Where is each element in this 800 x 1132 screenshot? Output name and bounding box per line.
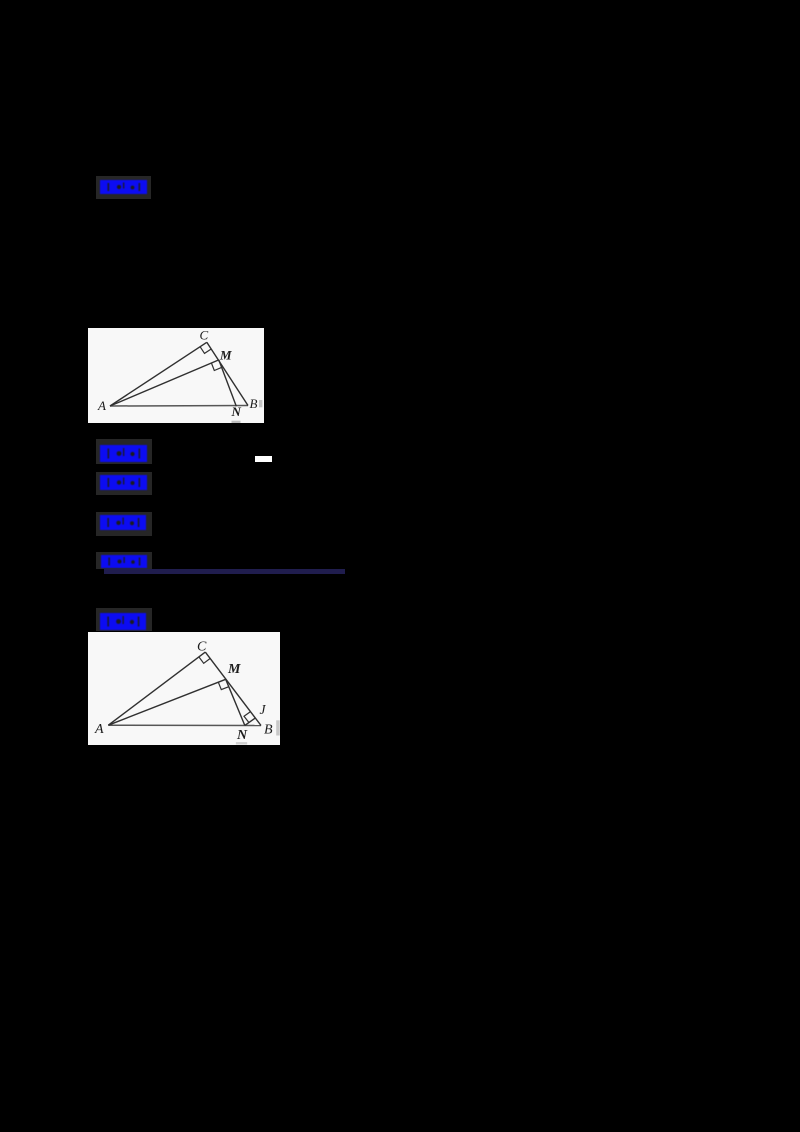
cursor artifact right of B — [276, 720, 280, 735]
white dash (math fragment) — [255, 456, 272, 462]
svg-text:C: C — [197, 640, 207, 655]
wire: segment AM — [110, 360, 219, 406]
right angle at M — [218, 682, 229, 689]
figure box 2 — [88, 632, 280, 745]
label tag 4 — [96, 512, 152, 536]
svg-text:A: A — [97, 398, 106, 413]
svg-text:N: N — [236, 728, 248, 743]
artifact below N — [232, 421, 241, 423]
right angle at C — [199, 657, 210, 663]
right angle at M — [211, 363, 221, 371]
svg-text:J: J — [260, 702, 267, 717]
wire: side AB — [110, 405, 248, 408]
wire: segment MN — [226, 679, 245, 725]
wire: segment MN — [219, 360, 237, 406]
wire: side CB through M — [207, 342, 248, 405]
navy underline — [104, 569, 345, 574]
wire: side AC — [108, 652, 205, 725]
wire: side AB — [108, 724, 261, 726]
right angle at C — [200, 347, 211, 354]
label tag 6 — [96, 608, 152, 631]
svg-text:N: N — [231, 404, 242, 419]
label tag 2 — [96, 439, 152, 464]
wire: segment AM — [108, 679, 225, 725]
wire: side CB through M — [205, 652, 261, 725]
label tag 5 — [96, 552, 152, 569]
figure box 1 — [88, 328, 264, 423]
svg-text:B: B — [264, 723, 273, 738]
svg-text:C: C — [200, 328, 209, 343]
label tag 3 — [96, 472, 152, 495]
label tag 1 (example heading) — [96, 176, 151, 199]
svg-text:A: A — [94, 722, 104, 737]
svg-text:M: M — [227, 662, 241, 677]
cursor artifact right of B — [259, 400, 262, 407]
svg-text:B: B — [250, 396, 258, 411]
wire: segment NJ — [245, 718, 256, 726]
right angle at J — [244, 712, 251, 723]
wire: side AC — [110, 342, 207, 406]
svg-text:M: M — [219, 348, 232, 363]
artifact below N — [236, 742, 247, 744]
